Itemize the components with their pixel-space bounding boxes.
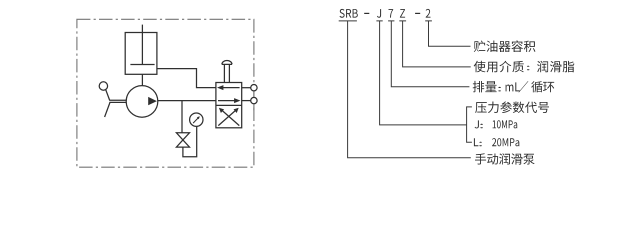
- boundary dash between ports: [253, 92, 255, 111]
- directional valve body (2-position): [216, 83, 242, 128]
- label 排量：mL/循环: [473, 81, 555, 93]
- push-button cap: [222, 61, 232, 65]
- wire shutoff valve to gauge (U loop): [183, 126, 197, 156]
- pump flow direction triangle: [148, 97, 157, 105]
- leader from 2 to 贮油器容积: [429, 21, 471, 46]
- leader from Z to 使用介质: [403, 21, 471, 67]
- gauge needle: [193, 118, 199, 124]
- reservoir tank: [125, 33, 157, 75]
- label L：20MPa: [474, 138, 519, 146]
- lever knob: [99, 82, 107, 90]
- leader from J to pressure bracket: [380, 21, 467, 125]
- valve upper box: arrow to outlet (right): [218, 100, 237, 102]
- model code underlines: [339, 20, 432, 22]
- lever shaft: [106, 90, 110, 101]
- valve upper box: arrow to reservoir (left): [221, 87, 240, 89]
- shutoff valve (gauge isolator): [176, 133, 189, 147]
- leader from 7 to 排量: [391, 21, 469, 87]
- valve lower box: crossed arrows: [218, 110, 239, 126]
- leader from SRB to 手动润滑泵: [348, 21, 471, 158]
- wire reservoir outlet to valve upper port: [157, 69, 216, 88]
- lever tail: [105, 102, 110, 117]
- outlet port circle lower: [242, 100, 251, 102]
- hyphens in model code: [364, 13, 369, 14]
- outlet port circle upper: [242, 87, 251, 89]
- valve position divider: [216, 104, 242, 106]
- wire branch down to shutoff valve: [181, 101, 183, 133]
- reservoir follower plate: [130, 64, 154, 66]
- label 贮油器容积: [474, 40, 536, 52]
- bracket for pressure codes: [467, 107, 472, 142]
- label 使用介质：润滑脂: [474, 61, 575, 73]
- label 压力参数代号: [475, 101, 549, 113]
- pump circle P1: [126, 86, 158, 118]
- model code letters SRB J 7 Z 2: [340, 9, 431, 18]
- wire pump outlet to valve lower port: [158, 100, 216, 102]
- label 手动润滑泵: [475, 153, 535, 164]
- lever fork linkage: [109, 100, 126, 102]
- wire reservoir bottom to pump inlet: [141, 74, 143, 85]
- pressure gauge G1: [190, 113, 203, 126]
- push-button actuator stem: [224, 64, 229, 82]
- enclosure boundary (dash-dot frame): [77, 19, 254, 167]
- label J：10MPa: [475, 120, 518, 128]
- reservoir fill stem: [141, 25, 143, 65]
